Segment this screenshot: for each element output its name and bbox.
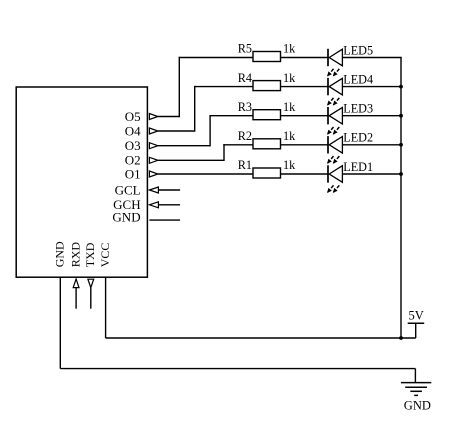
svg-text:GCL: GCL (115, 182, 141, 197)
svg-text:O1: O1 (125, 166, 141, 181)
svg-text:GND: GND (53, 241, 67, 267)
pin GCL (115, 182, 181, 197)
pin O4 (125, 123, 158, 138)
junction LED2/bus (399, 143, 403, 147)
wire GND pin down (59, 278, 61, 369)
svg-text:LED4: LED4 (343, 72, 373, 86)
wire O2 to R2 (158, 144, 253, 161)
wire VCC pin down (105, 278, 107, 338)
LED LED5 (328, 49, 343, 76)
junction LED1/bus (399, 172, 403, 176)
pin GND (right) (112, 210, 180, 225)
LED LED2 (328, 136, 343, 163)
svg-text:TXD: TXD (83, 242, 97, 267)
pin RXD arrow (73, 279, 79, 309)
svg-text:R3: R3 (238, 100, 252, 114)
LED LED1 (328, 165, 343, 192)
svg-text:RXD: RXD (68, 242, 82, 268)
LED LED3 (328, 107, 343, 134)
resistor R5 (253, 52, 281, 62)
pin O5 (125, 109, 158, 124)
pin O1 (125, 166, 158, 181)
junction bus/5V rail (399, 336, 403, 340)
svg-text:1k: 1k (283, 158, 296, 172)
resistor R4 (253, 81, 281, 91)
ground symbol GND (401, 383, 431, 413)
svg-text:1k: 1k (283, 42, 296, 56)
svg-text:R5: R5 (238, 42, 252, 56)
wire LED1 to 5V bus (342, 173, 401, 175)
wire O5 to R5 (158, 57, 253, 117)
wire LED4 to 5V bus (342, 86, 401, 88)
svg-text:O3: O3 (125, 138, 141, 153)
IC box U1 (16, 87, 147, 277)
wire R5 to LED5 (281, 57, 329, 59)
wire LED5 to 5V bus (342, 57, 401, 59)
wire O3 to R3 (158, 115, 253, 146)
power symbol 5V (408, 309, 425, 324)
svg-text:GND: GND (404, 399, 431, 413)
wire GND tap (414, 369, 416, 383)
svg-text:LED1: LED1 (343, 160, 373, 174)
svg-text:5V: 5V (409, 309, 424, 323)
pin GCH (113, 197, 180, 212)
svg-text:LED5: LED5 (343, 43, 373, 57)
svg-text:1k: 1k (283, 129, 296, 143)
wire GND rail (60, 368, 415, 370)
svg-text:R2: R2 (238, 129, 252, 143)
wire 5V bus vertical (400, 58, 402, 339)
svg-text:O5: O5 (125, 109, 141, 124)
svg-text:1k: 1k (283, 71, 296, 85)
resistor R1 (253, 168, 281, 178)
svg-text:VCC: VCC (98, 243, 112, 268)
wire R3 to LED3 (281, 115, 329, 117)
svg-text:R1: R1 (238, 158, 252, 172)
wire 5V tap (415, 323, 417, 338)
wire LED3 to 5V bus (342, 115, 401, 117)
wire O1 to R1 (158, 173, 253, 175)
pin O3 (125, 138, 158, 153)
svg-text:LED2: LED2 (343, 131, 373, 145)
svg-text:O4: O4 (125, 123, 141, 138)
resistor R3 (253, 110, 281, 120)
wire R4 to LED4 (281, 86, 329, 88)
svg-text:R4: R4 (238, 71, 252, 85)
wire O4 to R4 (158, 86, 253, 132)
pin O2 (125, 153, 158, 168)
junction LED4/bus (399, 85, 403, 89)
svg-text:GND: GND (112, 210, 140, 225)
junction LED3/bus (399, 114, 403, 118)
wire R2 to LED2 (281, 144, 329, 146)
svg-text:1k: 1k (283, 100, 296, 114)
wire LED2 to 5V bus (342, 144, 401, 146)
pin TXD arrow (88, 279, 94, 309)
wire R1 to LED1 (281, 173, 329, 175)
svg-text:LED3: LED3 (343, 102, 373, 116)
LED LED4 (328, 78, 343, 105)
wire VCC rail to 5V (106, 337, 416, 339)
resistor R2 (253, 139, 281, 149)
